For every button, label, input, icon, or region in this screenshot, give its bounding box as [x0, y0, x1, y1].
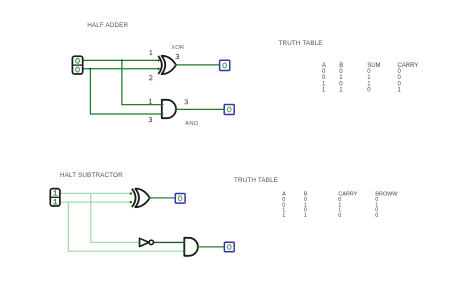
pin label 2 (XOR in2) [149, 76, 152, 80]
and gate AND2 (subtractor borrow) [184, 238, 198, 256]
svg-text:0: 0 [339, 69, 343, 75]
output box SUM frame [220, 60, 230, 70]
svg-text:0: 0 [339, 81, 343, 87]
wire B horizontal (subtractor, value 1) [60, 201, 131, 203]
xor gate XOR2 (subtractor difference) [132, 189, 150, 208]
wire branch A to NOT input [91, 193, 140, 242]
wire branch B to AND2 in2 [68, 202, 184, 251]
wire A horizontal (half adder) [83, 59, 159, 61]
node AND2 out [197, 246, 199, 248]
svg-text:1: 1 [339, 87, 343, 93]
truth table 2 [282, 192, 398, 219]
not gate NOT (subtractor) [140, 238, 154, 246]
node XOR2 in1 [130, 192, 132, 194]
svg-text:XOR: XOR [171, 45, 184, 51]
svg-text:0: 0 [367, 87, 371, 93]
svg-text:TRUTH TABLE: TRUTH TABLE [279, 40, 323, 47]
svg-text:1: 1 [398, 87, 402, 93]
svg-text:TRUTH TABLE: TRUTH TABLE [234, 177, 278, 184]
wire B horizontal (half adder) [83, 68, 159, 70]
value label 0 (input A) [76, 58, 80, 63]
node AND2 in1 [183, 241, 185, 243]
wire AND1 output [176, 108, 224, 110]
svg-text:0: 0 [322, 75, 326, 81]
svg-text:CARRY: CARRY [398, 63, 419, 69]
svg-text:1: 1 [367, 75, 371, 81]
value label 0 (SUM) [223, 63, 227, 68]
svg-text:A: A [322, 63, 326, 69]
svg-text:0: 0 [338, 213, 341, 219]
input IN3/IN4 block frame (subtractor A,B) [50, 189, 60, 206]
svg-text:HALT SUBTRACTOR: HALT SUBTRACTOR [60, 172, 123, 179]
svg-text:0: 0 [322, 69, 326, 75]
and gate AND (half adder carry) [162, 100, 176, 118]
svg-text:1: 1 [304, 213, 307, 219]
wire XOR1 output [176, 64, 220, 66]
value label 0 (BORROW) [228, 245, 232, 250]
svg-text:1: 1 [339, 75, 343, 81]
node XOR out [175, 64, 177, 66]
pin label 1 (XOR in1) [150, 50, 153, 54]
node XOR in2 [157, 68, 159, 70]
pin label 3 (AND out) [185, 100, 188, 104]
svg-text:B: B [339, 63, 343, 69]
truth table 1 [322, 63, 418, 93]
wire branch A vertical to AND in1 [122, 60, 162, 104]
output box BORROW frame [224, 242, 234, 252]
svg-text:0: 0 [367, 69, 371, 75]
svg-text:HALF ADDER: HALF ADDER [87, 22, 128, 29]
node NOT in [139, 241, 141, 243]
wire AND2 output (value 0) [198, 246, 225, 248]
svg-text:BROWW: BROWW [375, 192, 398, 198]
svg-text:SUM: SUM [367, 63, 380, 69]
node XOR in1 [157, 59, 159, 61]
output box DIFF frame [175, 194, 185, 204]
value label 0 (CARRY) [227, 107, 231, 112]
wire XOR2 output (value 0) [150, 197, 176, 199]
node XOR2 out [149, 197, 151, 199]
svg-text:0: 0 [398, 69, 402, 75]
wire A horizontal (subtractor, value 1) [60, 192, 131, 194]
svg-text:1: 1 [322, 81, 326, 87]
svg-text:0: 0 [398, 75, 402, 81]
pin label 3 (XOR out) [176, 54, 179, 58]
node XOR2 in2 [130, 201, 132, 203]
node AND in1 [161, 103, 163, 105]
junction wire B branch [89, 68, 91, 70]
svg-text:AND: AND [185, 121, 199, 127]
svg-text:1: 1 [367, 81, 371, 87]
output box CARRY frame [224, 105, 234, 115]
value label 1 (input B) [54, 199, 58, 204]
node AND out [175, 108, 177, 110]
node AND in2 [161, 113, 163, 115]
pin label 1 (AND in1) [149, 99, 152, 103]
wire branch B vertical to AND in2 [90, 69, 162, 114]
value label 0 (DIFF) [178, 196, 182, 201]
wire NOT output (value 0) [154, 241, 185, 243]
node AND2 in2 [183, 250, 185, 252]
svg-text:1: 1 [322, 87, 326, 93]
svg-text:0: 0 [375, 213, 378, 219]
junction wire A branch [121, 59, 123, 61]
xor gate XOR (half adder sum) [158, 56, 176, 74]
svg-text:1: 1 [282, 213, 285, 219]
value label 0 (input B) [76, 67, 80, 72]
value label 1 (input A) [54, 191, 58, 196]
input IN1/IN2 block frame (half adder A,B) [72, 56, 82, 74]
svg-text:0: 0 [398, 81, 402, 87]
pin label 3 (AND in2) [149, 117, 152, 121]
